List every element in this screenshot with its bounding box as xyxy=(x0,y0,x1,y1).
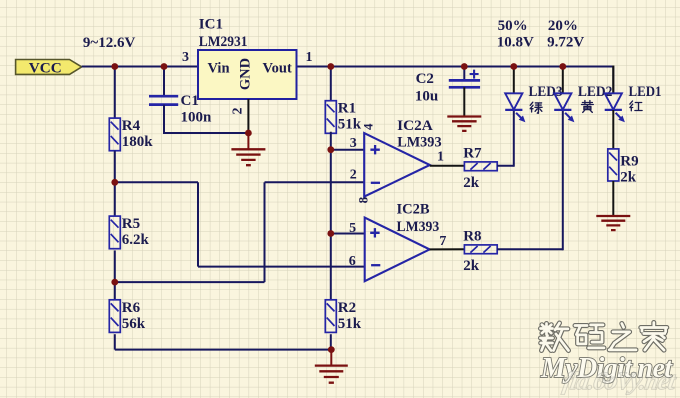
junction IC1 pin2 / C1 xyxy=(245,130,252,137)
svg-text:51k: 51k xyxy=(338,316,362,332)
wire up to pin2 level xyxy=(264,182,266,282)
wire R9 to ground xyxy=(612,181,614,216)
wire R5 to R6 xyxy=(114,250,116,299)
LED LED1 emission arrow xyxy=(616,113,622,119)
wire R4 to R5 xyxy=(114,151,116,216)
svg-text:2k: 2k xyxy=(463,258,480,274)
resistor R7 body xyxy=(464,162,497,171)
svg-text:IC2A: IC2A xyxy=(397,118,433,134)
svg-text:180k: 180k xyxy=(122,134,154,150)
wire R8 to LED2 corner xyxy=(497,248,563,250)
svg-text:R1: R1 xyxy=(338,101,356,117)
svg-text:fla.6oVy.net: fla.6oVy.net xyxy=(561,368,679,395)
junction R1/R2 node at IC2A pin3 xyxy=(327,146,334,153)
junction bottom rail / ground xyxy=(328,346,335,353)
wire VCC to IC1 Vin (node VCC rail left) xyxy=(82,66,198,68)
svg-text:GND: GND xyxy=(238,58,254,90)
wire C1 top lead xyxy=(163,66,165,97)
wire to IC2B pin 6 xyxy=(198,266,364,268)
junction rail / LED2 xyxy=(559,63,566,70)
svg-text:R6: R6 xyxy=(122,300,141,316)
svg-text:9~12.6V: 9~12.6V xyxy=(83,35,136,51)
wire IC1 pin2 to ground stub xyxy=(247,133,249,149)
ground main bottom xyxy=(315,366,348,383)
svg-text:R9: R9 xyxy=(620,153,638,169)
capacitor C1 plates xyxy=(149,96,178,104)
junction rail / LED3 xyxy=(510,63,517,70)
svg-text:51k: 51k xyxy=(338,117,362,133)
LED1 color label (red CJK) xyxy=(630,101,642,111)
svg-text:R8: R8 xyxy=(463,228,481,244)
wire R5/R6 node right xyxy=(115,281,265,283)
IC2A plus input mark xyxy=(370,145,379,154)
svg-text:IC1: IC1 xyxy=(199,17,223,33)
IC2A minus input mark xyxy=(371,182,380,184)
svg-text:6: 6 xyxy=(349,254,356,269)
IC IC1 LM2931 body xyxy=(198,50,297,99)
watermark char jia xyxy=(641,323,667,351)
capacitor C2 plates xyxy=(449,80,480,87)
svg-text:C1: C1 xyxy=(181,93,199,109)
wire R4/R5 node right xyxy=(115,181,198,183)
svg-text:R2: R2 xyxy=(338,300,356,316)
svg-text:1: 1 xyxy=(306,50,313,65)
wire R6 to bottom rail xyxy=(114,334,116,349)
LED LED3 emission arrow xyxy=(516,113,522,119)
junction VCC rail / C1 xyxy=(161,63,168,70)
svg-text:50%: 50% xyxy=(498,18,528,34)
wire to IC2A pin 3 xyxy=(331,149,365,151)
capacitor C2 polarity + xyxy=(470,70,479,79)
IC2B minus input mark xyxy=(371,264,380,266)
svg-text:3: 3 xyxy=(182,50,189,65)
wire VCC rail down to R1 xyxy=(330,66,332,101)
wire C1 bottom lead xyxy=(163,105,165,133)
svg-text:LED1: LED1 xyxy=(629,84,662,100)
wire LED1 anode lead xyxy=(612,66,614,94)
wire rail corner down to LED1 xyxy=(612,66,614,94)
svg-text:2: 2 xyxy=(350,168,357,183)
LED LED1 symbol xyxy=(605,93,622,109)
wire R1 to R2 column xyxy=(330,132,332,300)
LED3 color label (green CJK) xyxy=(530,102,542,113)
op-amp IC2A triangle xyxy=(364,133,430,197)
svg-text:LM2931: LM2931 xyxy=(199,34,248,50)
svg-text:5: 5 xyxy=(349,221,356,236)
watermark char shu xyxy=(541,323,569,351)
resistor R8 body xyxy=(464,245,497,254)
svg-text:56k: 56k xyxy=(122,316,146,332)
wire R7 to LED3 corner xyxy=(497,165,514,167)
resistor R6 body xyxy=(109,300,120,333)
svg-text:LM393: LM393 xyxy=(397,219,440,235)
svg-text:4: 4 xyxy=(361,123,376,130)
svg-text:7: 7 xyxy=(439,234,446,249)
wire LED3 anode lead xyxy=(513,66,515,94)
svg-text:2k: 2k xyxy=(620,169,637,185)
LED LED2 emission arrow xyxy=(565,113,571,119)
LED2 color label (yellow CJK) xyxy=(582,101,594,113)
svg-text:2: 2 xyxy=(231,108,246,115)
wire VCC rail down to R4 xyxy=(114,66,116,119)
wire C1 bottom to IC1 pin2 xyxy=(163,132,248,134)
junction VCC rail / R1 xyxy=(327,63,334,70)
svg-text:8: 8 xyxy=(356,196,371,203)
svg-text:IC2B: IC2B xyxy=(397,202,430,218)
svg-text:C2: C2 xyxy=(416,71,434,87)
wire IC1 Vout rail right xyxy=(297,66,614,68)
wire LED2 anode lead xyxy=(562,66,564,94)
junction at IC2B pin5 xyxy=(327,230,334,237)
svg-text:Vin: Vin xyxy=(208,61,230,77)
svg-text:6.2k: 6.2k xyxy=(122,232,150,248)
wire R2 to bottom rail xyxy=(330,334,332,349)
ground below C2 xyxy=(447,117,481,131)
ground below IC1 pin 2 xyxy=(231,149,265,165)
resistor R9 body xyxy=(608,149,619,181)
wire IC2A output to R7 xyxy=(430,165,465,167)
svg-text:R4: R4 xyxy=(122,118,141,134)
wire C2 top lead xyxy=(463,66,465,81)
LED LED2 symbol xyxy=(554,93,571,109)
resistor R1 body xyxy=(325,101,336,134)
svg-text:R5: R5 xyxy=(122,216,140,232)
svg-text:9.72V: 9.72V xyxy=(547,34,584,50)
svg-text:Vout: Vout xyxy=(263,61,292,77)
watermark char ma xyxy=(575,325,604,348)
svg-text:10u: 10u xyxy=(415,89,438,105)
svg-text:R7: R7 xyxy=(463,145,482,161)
junction R5/R6 node xyxy=(111,279,118,286)
wire LED1 to R9 xyxy=(612,110,614,149)
wire LED3 cathode down xyxy=(513,110,515,167)
svg-text:20%: 20% xyxy=(548,18,578,34)
ground below R9 xyxy=(596,216,630,230)
resistor R5 body xyxy=(109,216,120,249)
watermark char zhi xyxy=(609,324,636,350)
LED LED3 symbol xyxy=(505,93,522,109)
wire bottom rail to ground stub xyxy=(330,350,332,366)
wire IC2B output to R8 xyxy=(430,248,465,250)
power port VCC xyxy=(16,60,82,75)
junction VCC rail / R4 xyxy=(111,63,118,70)
wire C2 bottom lead xyxy=(463,87,465,116)
wire LED2 cathode down xyxy=(562,110,564,250)
svg-text:10.8V: 10.8V xyxy=(497,34,534,50)
wire IC1 pin 2 lead xyxy=(247,99,249,133)
svg-text:1: 1 xyxy=(437,150,444,165)
svg-text:100n: 100n xyxy=(181,110,213,126)
wire to IC2A pin 2 xyxy=(265,181,365,183)
op-amp IC2B triangle xyxy=(365,218,430,282)
wire bottom ground rail xyxy=(115,349,331,351)
resistor R2 body xyxy=(325,300,336,333)
wire down to pin6 level xyxy=(197,182,199,266)
resistor R4 body xyxy=(109,118,120,151)
svg-text:2k: 2k xyxy=(463,175,480,191)
wire to IC2B pin 5 xyxy=(331,233,365,235)
junction rail / C2 xyxy=(461,63,468,70)
watermark faint overlay xyxy=(561,368,679,395)
svg-text:VCC: VCC xyxy=(29,60,62,76)
IC2B plus input mark xyxy=(370,228,379,237)
junction R4/R5 node xyxy=(111,179,118,186)
svg-text:3: 3 xyxy=(350,136,357,151)
svg-text:LM393: LM393 xyxy=(397,135,441,151)
